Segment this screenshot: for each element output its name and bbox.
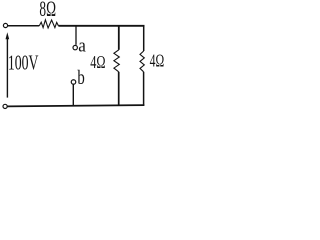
svg-text:4Ω: 4Ω [90, 52, 105, 72]
voltage source arrowhead [6, 32, 10, 39]
wire top left segment [8, 25, 40, 27]
voltage source arrow shaft [6, 38, 8, 98]
wire bottom [7, 105, 144, 106]
svg-text:4Ω: 4Ω [150, 50, 165, 70]
node a terminal circle [73, 45, 77, 49]
resistor R3 4ohm zigzag [140, 51, 144, 72]
svg-text:100V: 100V [8, 51, 39, 75]
terminal circle bottom-left [3, 104, 7, 108]
wire branch 1 bottom [118, 72, 120, 106]
resistor R2 4ohm zigzag [114, 50, 119, 72]
wire node b to bottom [72, 84, 74, 105]
wire top right segment [58, 25, 144, 27]
wire branch 2 top [143, 26, 145, 51]
svg-text:a: a [78, 35, 86, 56]
wire branch to node a [75, 26, 77, 45]
svg-text:b: b [77, 67, 84, 89]
terminal circle top-left [3, 23, 7, 27]
svg-text:8Ω: 8Ω [39, 0, 56, 21]
wire branch 1 top [118, 26, 120, 50]
node b terminal circle [71, 80, 76, 85]
wire branch 2 bottom [143, 72, 145, 105]
resistor R1 8ohm zigzag [39, 20, 58, 28]
